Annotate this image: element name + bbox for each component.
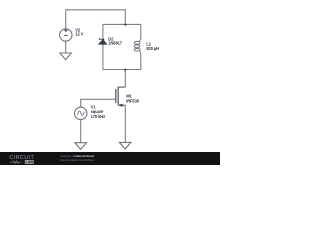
wire: node B to M1 drain	[124, 70, 126, 88]
footer url line 2	[60, 159, 94, 162]
wire: V1 bottom to ground	[80, 119, 82, 143]
label M1	[126, 94, 132, 99]
ground (M1 source)	[119, 142, 130, 149]
transistor M1 IRF530 (NMOS)	[116, 87, 126, 107]
voltage source V1 square 170 kHz	[75, 107, 87, 119]
node junction dot top (node A)	[124, 24, 126, 26]
label IRF530 value	[126, 99, 140, 104]
inductor L1 820 uH	[134, 37, 141, 56]
diode D2 1N5817 (schottky, pointing up)	[98, 38, 107, 45]
svg-text:170 kHz: 170 kHz	[91, 114, 105, 119]
label L1	[146, 42, 151, 47]
wire: loop bottom rail from D2 and L1	[103, 40, 141, 70]
label 12 V value	[75, 32, 83, 37]
svg-text:IRF530: IRF530	[126, 99, 140, 104]
label V1	[91, 105, 97, 110]
svg-text:LAB: LAB	[26, 160, 34, 164]
label 1N5817 value	[108, 41, 122, 46]
ground (V1)	[75, 143, 87, 150]
wire: M1 source down to ground	[124, 105, 126, 142]
wire: V1 top to M1 gate	[81, 99, 116, 107]
ground (V2)	[60, 53, 72, 60]
CircuitLab logo	[0, 152, 46, 165]
footer bar	[0, 152, 220, 165]
svg-text:820 µH: 820 µH	[146, 46, 159, 51]
label V2	[75, 28, 81, 33]
svg-text:1N5817: 1N5817	[108, 41, 122, 46]
label 170 kHz value	[91, 114, 105, 119]
voltage source V2 12 V	[60, 29, 72, 41]
node junction dot bottom (node B)	[124, 69, 126, 71]
footer credit text line 1	[60, 154, 94, 158]
label square value	[91, 109, 105, 114]
svg-text:12 V: 12 V	[75, 32, 83, 37]
wire: V2 top up and across to node A drop	[66, 10, 126, 29]
wire: V2 bottom to ground	[65, 41, 67, 53]
label 820 uH value	[146, 46, 159, 51]
label D2	[108, 36, 114, 41]
wire: loop top rail to D2 and L1	[103, 24, 141, 45]
